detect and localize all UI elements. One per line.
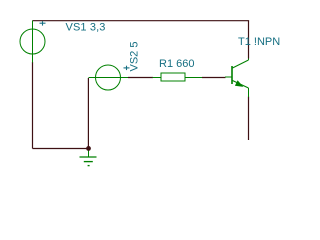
svg-text:VS2 5: VS2 5 (129, 42, 141, 72)
svg-text:R1 660: R1 660 (159, 58, 194, 70)
svg-text:VS1 3,3: VS1 3,3 (66, 21, 106, 33)
svg-text:T1 !NPN: T1 !NPN (238, 36, 280, 48)
